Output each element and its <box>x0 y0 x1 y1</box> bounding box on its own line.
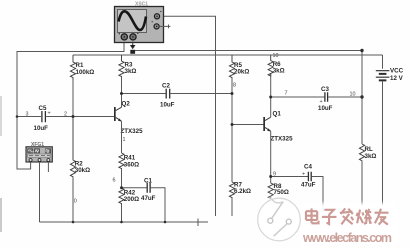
resistor R3 <box>119 55 136 77</box>
svg-text:6.2kΩ: 6.2kΩ <box>234 188 251 195</box>
capacitor C5 <box>34 105 51 132</box>
node 2 wire C5 to Q2 base <box>46 116 114 118</box>
svg-text:+: + <box>48 111 51 117</box>
svg-text:0: 0 <box>74 199 77 205</box>
resistor RL <box>359 144 376 161</box>
svg-text:10uF: 10uF <box>160 102 175 109</box>
svg-text:ZTX325: ZTX325 <box>271 136 294 143</box>
node 0 <box>74 199 77 205</box>
resistor R6 <box>268 55 284 76</box>
resistor R8 <box>268 183 289 199</box>
function generator XFG1 <box>26 142 52 162</box>
svg-text:200Ω: 200Ω <box>124 196 139 203</box>
resistor R1 <box>70 55 94 80</box>
node 8 <box>233 83 236 89</box>
svg-text:C3: C3 <box>321 86 329 93</box>
resistor R5 <box>229 55 249 78</box>
svg-text:100kΩ: 100kΩ <box>76 69 95 76</box>
wire scope B output sense line <box>133 50 362 52</box>
wire input net 3 horizontal <box>17 51 124 53</box>
resistor R2 <box>70 117 90 178</box>
capacitor C3 <box>318 86 333 112</box>
svg-text:C1: C1 <box>144 177 152 184</box>
capacitor C1 <box>141 177 156 202</box>
wire output column <box>361 51 363 145</box>
svg-text:12 V: 12 V <box>390 75 404 82</box>
wire R41 to node 6 <box>121 169 123 188</box>
svg-text:1: 1 <box>123 137 126 143</box>
wire scope ground drop <box>160 16 216 216</box>
svg-text:VCC: VCC <box>390 68 404 75</box>
wire XFG1 minus pin stub <box>47 162 49 173</box>
svg-text:750Ω: 750Ω <box>274 189 289 196</box>
node 3 <box>26 112 29 118</box>
wire R8 bottom <box>270 196 272 203</box>
wire R5 bottom through node 8 to R7 <box>231 78 233 182</box>
wire R42 bottom to ground <box>121 204 123 222</box>
svg-text:+: + <box>320 99 323 105</box>
battery VCC V1 <box>376 55 404 205</box>
svg-text:20kΩ: 20kΩ <box>234 69 249 76</box>
wire C4 branch <box>271 176 308 178</box>
svg-text:6: 6 <box>113 178 116 184</box>
svg-text:360Ω: 360Ω <box>124 162 139 169</box>
watermark white halo <box>256 196 400 245</box>
svg-text:10uF: 10uF <box>318 105 333 112</box>
svg-text:10: 10 <box>273 53 279 59</box>
svg-text:R41: R41 <box>124 155 136 162</box>
node 3 wire C5 row left <box>17 116 41 118</box>
scope ground arrow symbol <box>130 42 136 54</box>
oscilloscope XSC1 <box>115 1 164 42</box>
svg-text:RL: RL <box>365 146 373 153</box>
wire node 7 Q1 collector to C3 <box>271 96 325 98</box>
wire XFG1 common pin to ground <box>39 162 41 223</box>
node 7 <box>285 91 288 97</box>
wire VCC bus <box>73 54 383 56</box>
svg-text:47uF: 47uF <box>141 195 156 202</box>
wire R6 bottom to Q1 collector <box>270 74 272 117</box>
wire Q2 collector to C2 <box>122 93 166 95</box>
wire R2 bottom to ground <box>72 177 74 222</box>
node 9 <box>273 172 276 178</box>
resistor R42 <box>119 188 139 204</box>
node 1 <box>123 137 126 143</box>
wire R3 bottom to Q2 collector <box>121 77 123 107</box>
capacitor C2 <box>160 83 175 109</box>
transistor Q2 <box>114 101 143 136</box>
svg-text:Q2: Q2 <box>122 101 131 108</box>
svg-text:10uF: 10uF <box>34 125 49 132</box>
wire scope A probe drop <box>123 42 125 53</box>
svg-text:7: 7 <box>285 91 288 97</box>
svg-text:3kΩ: 3kΩ <box>125 68 137 75</box>
node 10 on bus <box>273 53 279 59</box>
wire XFG1 plus pin <box>30 162 32 170</box>
svg-text:8: 8 <box>233 83 236 89</box>
wire C1 to ground <box>151 188 165 222</box>
wire ground bus <box>40 219 209 227</box>
node 2 <box>64 112 67 118</box>
wire scope T stub <box>159 25 170 29</box>
svg-text:30kΩ: 30kΩ <box>75 167 90 174</box>
svg-text:3: 3 <box>26 112 29 118</box>
node 6 <box>113 178 116 184</box>
svg-text:Q1: Q1 <box>273 111 282 118</box>
node 10 output <box>350 92 356 98</box>
wire C2 to R5 column <box>170 93 232 95</box>
watermark logo circle <box>258 198 301 241</box>
wire C4 to ground <box>312 177 323 213</box>
wire Q1 base row <box>232 124 264 126</box>
transistor Q1 <box>263 111 293 143</box>
svg-text:47uF: 47uF <box>301 181 316 188</box>
svg-text:+: + <box>302 172 305 178</box>
svg-text:3kΩ: 3kΩ <box>365 153 377 160</box>
capacitor C4 <box>301 164 316 189</box>
wire input net 3 vertical left <box>17 51 31 170</box>
svg-text:ZTX325: ZTX325 <box>121 128 144 135</box>
wire R1 bottom to node 2 <box>72 80 74 117</box>
svg-text:www.elecfans.com: www.elecfans.com <box>302 231 392 245</box>
resistor R41 <box>119 153 139 169</box>
edge smudge left <box>0 96 2 232</box>
wire Q1 emitter down <box>270 131 272 183</box>
svg-text:C2: C2 <box>162 83 170 90</box>
wire RL bottom <box>361 161 363 206</box>
svg-text:2: 2 <box>64 112 67 118</box>
svg-text:3kΩ: 3kΩ <box>273 68 285 75</box>
svg-text:C5: C5 <box>39 105 47 112</box>
wire R7 bottom <box>231 197 233 216</box>
svg-text:C4: C4 <box>304 164 312 171</box>
resistor R7 <box>229 182 251 198</box>
wire C3 to node 10 <box>328 96 362 98</box>
watermark text url <box>301 231 392 246</box>
wire node 6 to C1 <box>122 187 147 189</box>
wire Q2 emitter to R41 <box>121 121 123 153</box>
svg-text:10: 10 <box>350 92 356 98</box>
